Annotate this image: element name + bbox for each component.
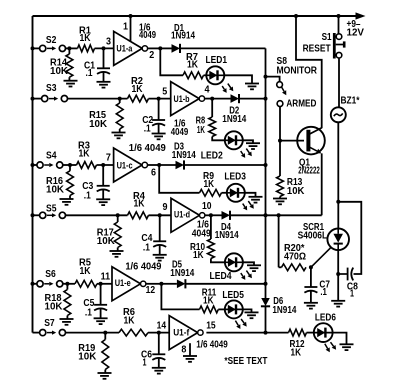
buzzer BZ1 bbox=[331, 107, 346, 122]
resistor R20 bbox=[282, 264, 307, 271]
wire S1 to BZ1 bbox=[338, 58, 340, 107]
svg-text:.1: .1 bbox=[84, 191, 91, 202]
wire D5 to bus bbox=[185, 283, 265, 285]
switch S8 arm bbox=[282, 87, 287, 95]
diode D1 bbox=[172, 44, 181, 53]
junction C3 top bbox=[101, 163, 105, 167]
ground C3 bbox=[96, 199, 110, 205]
junction bus D3 bbox=[264, 163, 268, 167]
svg-text:1K: 1K bbox=[197, 125, 205, 136]
ground LED2 bbox=[246, 143, 260, 149]
svg-text:7: 7 bbox=[106, 153, 112, 164]
wire S5 to R17 bbox=[66, 214, 128, 216]
junction R20 feed bbox=[277, 213, 281, 217]
wire to diode D1 bbox=[160, 47, 171, 49]
diode D3 bbox=[176, 160, 185, 169]
wire S3 to R15 bbox=[68, 98, 128, 100]
wire U1-d output junction to R10 bbox=[210, 215, 212, 239]
wire U1-a pin 1 to +V bus bbox=[130, 16, 132, 41]
svg-text:S4006L: S4006L bbox=[298, 230, 328, 241]
switch S2 bbox=[40, 45, 66, 51]
resistor R4 bbox=[128, 212, 149, 219]
wire D4 to bus bbox=[230, 214, 266, 216]
resistor R17 bbox=[114, 215, 121, 251]
junction bus D5 bbox=[264, 282, 268, 286]
wire U1-e output to R11 bbox=[161, 284, 199, 310]
junction R16 top bbox=[68, 163, 72, 167]
junction bus D4 bbox=[264, 213, 268, 217]
ground R18 bbox=[60, 319, 74, 325]
resistor R7 bbox=[183, 72, 204, 79]
LED LED5 bbox=[225, 300, 247, 329]
wire R3 to gate input bbox=[97, 164, 114, 166]
svg-text:10K: 10K bbox=[50, 66, 68, 77]
switch S7 bbox=[40, 330, 66, 336]
wire diode bus vertical bbox=[265, 48, 267, 298]
svg-text:1K: 1K bbox=[203, 295, 214, 306]
svg-text:S6: S6 bbox=[45, 269, 56, 280]
svg-text:10K: 10K bbox=[45, 302, 63, 313]
svg-text:LED6: LED6 bbox=[315, 313, 336, 324]
diode D5 bbox=[177, 279, 186, 288]
wire R5 to gate input bbox=[97, 283, 112, 285]
wire Q1 collector to +V bbox=[296, 16, 322, 128]
wire Q1 emitter down bbox=[321, 153, 323, 215]
svg-text:1K: 1K bbox=[187, 60, 198, 71]
svg-text:4049: 4049 bbox=[171, 127, 189, 138]
junction C8 branch bbox=[336, 200, 340, 204]
svg-text:1K: 1K bbox=[193, 250, 204, 261]
svg-text:LED5: LED5 bbox=[222, 290, 244, 301]
resistor R16 bbox=[67, 165, 74, 199]
junction left bus row 2 bbox=[31, 97, 35, 101]
svg-text:.1: .1 bbox=[320, 287, 327, 298]
wire row 6 input bbox=[33, 332, 40, 334]
wire R12 to LED6 bbox=[307, 332, 314, 334]
junction left bus row 1 bbox=[31, 46, 35, 50]
ground LED3 bbox=[249, 197, 263, 203]
wire row 3 input bbox=[33, 164, 37, 166]
switch S5 bbox=[40, 212, 66, 218]
wire ARMED to Q1 base node bbox=[279, 107, 281, 141]
svg-text:1K: 1K bbox=[291, 348, 302, 359]
wire base node to Q1 bbox=[280, 140, 304, 142]
wire R1 to gate input bbox=[95, 47, 114, 49]
svg-text:1N914: 1N914 bbox=[215, 230, 239, 241]
svg-text:4049: 4049 bbox=[192, 229, 211, 240]
svg-text:10K: 10K bbox=[287, 186, 305, 197]
resistor R18 bbox=[64, 284, 71, 319]
ground C2 bbox=[152, 134, 166, 140]
svg-text:1K: 1K bbox=[134, 199, 145, 210]
svg-text:*SEE TEXT: *SEE TEXT bbox=[224, 356, 267, 367]
svg-text:1: 1 bbox=[350, 289, 354, 300]
svg-text:U1-a: U1-a bbox=[116, 43, 133, 53]
junction C5 top bbox=[99, 282, 103, 286]
junction output row 1 bbox=[158, 46, 162, 50]
wire diode bus lower bbox=[265, 307, 267, 333]
svg-text:2: 2 bbox=[149, 50, 155, 61]
svg-text:1/6 4049: 1/6 4049 bbox=[196, 339, 228, 350]
svg-text:2N2222: 2N2222 bbox=[298, 166, 320, 177]
wire SCR cathode to ground bbox=[337, 250, 339, 301]
inverter U1 U1-b bbox=[171, 82, 205, 116]
wire bus to R12 bbox=[266, 332, 289, 334]
resistor R19 bbox=[102, 333, 109, 373]
wire U1-f output to bus bbox=[206, 332, 265, 334]
wire R4 to gate input bbox=[149, 214, 172, 216]
ground C4 bbox=[153, 255, 167, 261]
svg-text:1N914: 1N914 bbox=[172, 150, 196, 161]
svg-text:1K: 1K bbox=[80, 33, 91, 44]
diode D2 bbox=[231, 94, 240, 103]
junction row 6 bus bbox=[264, 331, 268, 335]
junction bus D2 bbox=[264, 97, 268, 101]
diode D4 bbox=[222, 211, 231, 220]
wire row 1 input bbox=[33, 47, 40, 49]
resistor R3 bbox=[77, 162, 97, 169]
wire gate output row 3 bbox=[148, 164, 160, 166]
wire R7 to LED1 bbox=[204, 74, 207, 76]
svg-text:LED3: LED3 bbox=[224, 171, 246, 182]
wire to diode D5 bbox=[161, 283, 177, 285]
junction R20 C7 gate bbox=[309, 265, 313, 269]
svg-text:S5: S5 bbox=[46, 203, 57, 214]
junction bus S8 tap bbox=[264, 75, 268, 79]
svg-text:S1: S1 bbox=[322, 32, 332, 43]
svg-text:1K: 1K bbox=[80, 266, 91, 277]
junction left bus row 4 bbox=[31, 213, 35, 217]
junction R15 top bbox=[118, 97, 122, 101]
svg-text:11: 11 bbox=[101, 272, 111, 283]
wire gate output row 1 bbox=[148, 47, 161, 49]
wire LED4 to ground bbox=[243, 262, 254, 265]
svg-text:1K: 1K bbox=[204, 179, 215, 190]
svg-text:BZ1*: BZ1* bbox=[341, 96, 360, 107]
ground U1-f pin 8 bbox=[183, 356, 197, 362]
svg-text:10K: 10K bbox=[97, 236, 115, 247]
wire R11 to LED5 bbox=[218, 308, 225, 310]
wire D1 to bus bbox=[180, 47, 266, 49]
wire to diode D3 bbox=[159, 164, 175, 166]
resistor R11 bbox=[200, 306, 219, 313]
ground C7 bbox=[304, 303, 318, 309]
wire S7 to R19 bbox=[66, 332, 120, 334]
ground LED6 bbox=[340, 344, 354, 350]
ground R19 bbox=[98, 373, 112, 379]
wire bus node to R20 and Q1 emitter bbox=[266, 214, 322, 216]
junction R19 top bbox=[103, 331, 107, 335]
svg-text:LED1: LED1 bbox=[206, 55, 228, 66]
wire row 4 input bbox=[33, 214, 40, 216]
svg-text:1N914: 1N914 bbox=[222, 114, 246, 125]
ground LED4 bbox=[247, 265, 261, 271]
wire LED2 to ground bbox=[243, 140, 253, 143]
inverter U1 U1-a bbox=[114, 31, 148, 65]
wire C8 branch bbox=[338, 202, 361, 274]
junction R17 top bbox=[116, 213, 120, 217]
junction R14 top bbox=[67, 46, 71, 50]
ground C5 bbox=[94, 318, 108, 324]
svg-text:12: 12 bbox=[146, 285, 156, 296]
ground LED5 bbox=[245, 312, 259, 318]
svg-text:14: 14 bbox=[157, 320, 167, 331]
wire SCR gate bbox=[311, 248, 331, 268]
resistor R5 bbox=[75, 280, 97, 287]
svg-text:ARMED: ARMED bbox=[286, 99, 316, 110]
wire to diode D4 bbox=[211, 214, 222, 216]
ground R16 bbox=[60, 199, 74, 205]
inverter U1 U1-e bbox=[112, 267, 146, 301]
wire LED6 to ground bbox=[333, 333, 347, 345]
svg-text:1N914: 1N914 bbox=[272, 305, 296, 316]
resistor R6 bbox=[119, 329, 148, 336]
wire U1-f pin 8 to ground bbox=[189, 343, 191, 356]
wire R10 to LED4 bbox=[211, 259, 225, 263]
svg-text:10K: 10K bbox=[78, 352, 96, 363]
svg-text:LED4: LED4 bbox=[210, 271, 232, 282]
svg-text:8: 8 bbox=[181, 345, 187, 356]
inverter U1 U1-d bbox=[171, 198, 205, 232]
junction Q1 base node bbox=[278, 139, 282, 143]
junction C6 top bbox=[157, 331, 161, 335]
svg-text:10K: 10K bbox=[89, 119, 107, 130]
junction left bus row 3 bbox=[31, 163, 35, 167]
wire D3 to bus bbox=[184, 164, 266, 166]
capacitor C2 bbox=[152, 99, 165, 134]
resistor R1 bbox=[78, 45, 95, 52]
junction output row 4 bbox=[209, 213, 213, 217]
resistor R10 bbox=[208, 239, 215, 259]
ground R13 bbox=[273, 199, 287, 205]
svg-text:6: 6 bbox=[151, 168, 157, 179]
switch S8 pole contact bbox=[277, 82, 283, 88]
svg-text:S2: S2 bbox=[46, 35, 57, 46]
LED LED3 bbox=[227, 184, 254, 211]
junction C1 top bbox=[102, 46, 106, 50]
inverter U1 U1-c bbox=[114, 148, 148, 182]
svg-text:U1-b: U1-b bbox=[174, 94, 190, 104]
svg-text:.1: .1 bbox=[86, 68, 93, 79]
svg-text:1: 1 bbox=[143, 358, 147, 369]
LED LED2 bbox=[225, 131, 252, 158]
ground SCR cathode bbox=[331, 301, 345, 307]
wire gate output row 5 bbox=[146, 283, 162, 285]
wire LED3 to ground bbox=[245, 193, 256, 197]
wire D2 to bus bbox=[239, 98, 266, 100]
wire S4 to R16 bbox=[63, 164, 77, 166]
svg-text:9: 9 bbox=[163, 202, 169, 213]
svg-text:S4: S4 bbox=[46, 151, 57, 162]
wire S6 to R18 bbox=[63, 283, 75, 285]
LED LED4 bbox=[225, 253, 252, 280]
ground R17 bbox=[110, 251, 124, 257]
wire bus to S8 pole bbox=[266, 77, 280, 82]
ground C1 bbox=[97, 82, 111, 88]
SCR SCR1 bbox=[327, 229, 349, 251]
svg-text:MONITOR: MONITOR bbox=[277, 66, 318, 77]
resistor R14 bbox=[66, 48, 73, 80]
svg-text:U1-c: U1-c bbox=[117, 161, 133, 171]
svg-text:U1-d: U1-d bbox=[174, 209, 190, 219]
wire row 2 input bbox=[33, 98, 42, 100]
resistor R9 bbox=[200, 189, 222, 196]
wire U1-a output to R7 bbox=[160, 48, 183, 75]
wire BZ1 to SCR anode bbox=[337, 122, 339, 228]
svg-text:4: 4 bbox=[205, 85, 211, 96]
ground R15 bbox=[112, 133, 126, 139]
junction output row 2 bbox=[210, 97, 214, 101]
resistor R13 bbox=[277, 141, 284, 199]
LED LED1 bbox=[206, 66, 233, 93]
svg-text:1K: 1K bbox=[132, 84, 143, 95]
LED LED6 bbox=[314, 323, 336, 352]
svg-text:.1: .1 bbox=[144, 123, 151, 134]
resistor R12 bbox=[289, 329, 307, 336]
wire row 5 input bbox=[33, 283, 37, 285]
junction R18 top bbox=[65, 282, 69, 286]
resistor R2 bbox=[128, 95, 149, 102]
junction output row 5 bbox=[159, 282, 163, 286]
arrowhead +V supply bbox=[356, 12, 366, 19]
wire S2 to R14 bbox=[66, 47, 78, 49]
svg-text:.1: .1 bbox=[85, 307, 92, 318]
capacitor C8 bbox=[338, 268, 353, 281]
diode D6 bbox=[261, 298, 270, 306]
wire R9 to LED3 bbox=[222, 192, 227, 194]
wire +V to S1 bbox=[338, 16, 340, 34]
capacitor C5 bbox=[94, 284, 107, 319]
svg-text:4049: 4049 bbox=[139, 30, 156, 41]
svg-text:LED2: LED2 bbox=[201, 150, 223, 161]
wire left +V bus bbox=[32, 16, 34, 333]
svg-text:U1-e: U1-e bbox=[115, 278, 131, 288]
wire LED1 to ground bbox=[224, 75, 252, 83]
wire LED5 to ground bbox=[243, 309, 252, 312]
ground LED1 bbox=[245, 84, 259, 90]
svg-text:15: 15 bbox=[206, 321, 216, 332]
resistor R8 bbox=[209, 117, 216, 137]
svg-text:470Ω: 470Ω bbox=[284, 252, 306, 263]
switch S6 bbox=[37, 281, 63, 287]
junction pin1 on top bus bbox=[129, 14, 133, 18]
svg-text:3: 3 bbox=[106, 36, 112, 47]
wire gate output row 2 bbox=[205, 98, 213, 100]
capacitor C3 bbox=[97, 165, 110, 199]
svg-text:U1-f: U1-f bbox=[173, 328, 190, 338]
svg-text:12V: 12V bbox=[347, 28, 365, 39]
svg-text:10: 10 bbox=[202, 201, 212, 212]
svg-text:RESET: RESET bbox=[303, 44, 331, 55]
wire U1-b output junction to R8 bbox=[211, 99, 213, 117]
resistor R15 bbox=[116, 99, 123, 133]
wire to diode D2 bbox=[212, 98, 230, 100]
junction C2 top bbox=[157, 97, 161, 101]
svg-text:10K: 10K bbox=[46, 185, 64, 196]
wire R6 to gate input bbox=[148, 332, 169, 334]
capacitor C7 bbox=[304, 267, 317, 303]
ground R14 bbox=[64, 81, 78, 87]
switch S3 bbox=[42, 96, 68, 102]
wire R8 to LED2 bbox=[212, 137, 225, 141]
ground C6 bbox=[152, 368, 166, 374]
svg-text:1K: 1K bbox=[79, 148, 90, 159]
svg-text:1K: 1K bbox=[124, 315, 135, 326]
junction C4 top bbox=[158, 213, 162, 217]
capacitor C6 bbox=[152, 333, 165, 368]
svg-text:1: 1 bbox=[123, 22, 129, 33]
svg-text:.1: .1 bbox=[143, 242, 150, 253]
switch S1 pushbutton bbox=[334, 33, 344, 59]
junction Q1 collector feed on top bus bbox=[294, 14, 298, 18]
svg-text:1/6 4049: 1/6 4049 bbox=[125, 261, 162, 272]
junction left bus row 5 bbox=[31, 282, 35, 286]
svg-text:5: 5 bbox=[162, 86, 168, 97]
capacitor C1 bbox=[97, 48, 110, 81]
wire U1-c output to R9 bbox=[159, 165, 199, 193]
junction S1 branch on top bus bbox=[337, 14, 341, 18]
inverter U1 U1-f bbox=[169, 316, 203, 350]
svg-text:1N914: 1N914 bbox=[171, 30, 195, 41]
wire gate output row 4 bbox=[205, 214, 211, 216]
svg-text:1/6 4049: 1/6 4049 bbox=[129, 143, 167, 154]
svg-text:S3: S3 bbox=[46, 83, 57, 94]
wire down to R20 bbox=[278, 215, 280, 267]
transistor Q1 bbox=[297, 127, 325, 155]
wire R2 to gate input bbox=[149, 98, 171, 100]
wire +V top bus bbox=[33, 15, 361, 17]
svg-text:1N914: 1N914 bbox=[170, 268, 194, 279]
switch S8 armed contact bbox=[277, 101, 283, 107]
svg-text:S7: S7 bbox=[44, 318, 55, 329]
capacitor C4 bbox=[153, 215, 166, 255]
switch S4 bbox=[37, 162, 63, 168]
junction C8 cathode side bbox=[336, 272, 340, 276]
junction output row 3 bbox=[157, 163, 161, 167]
